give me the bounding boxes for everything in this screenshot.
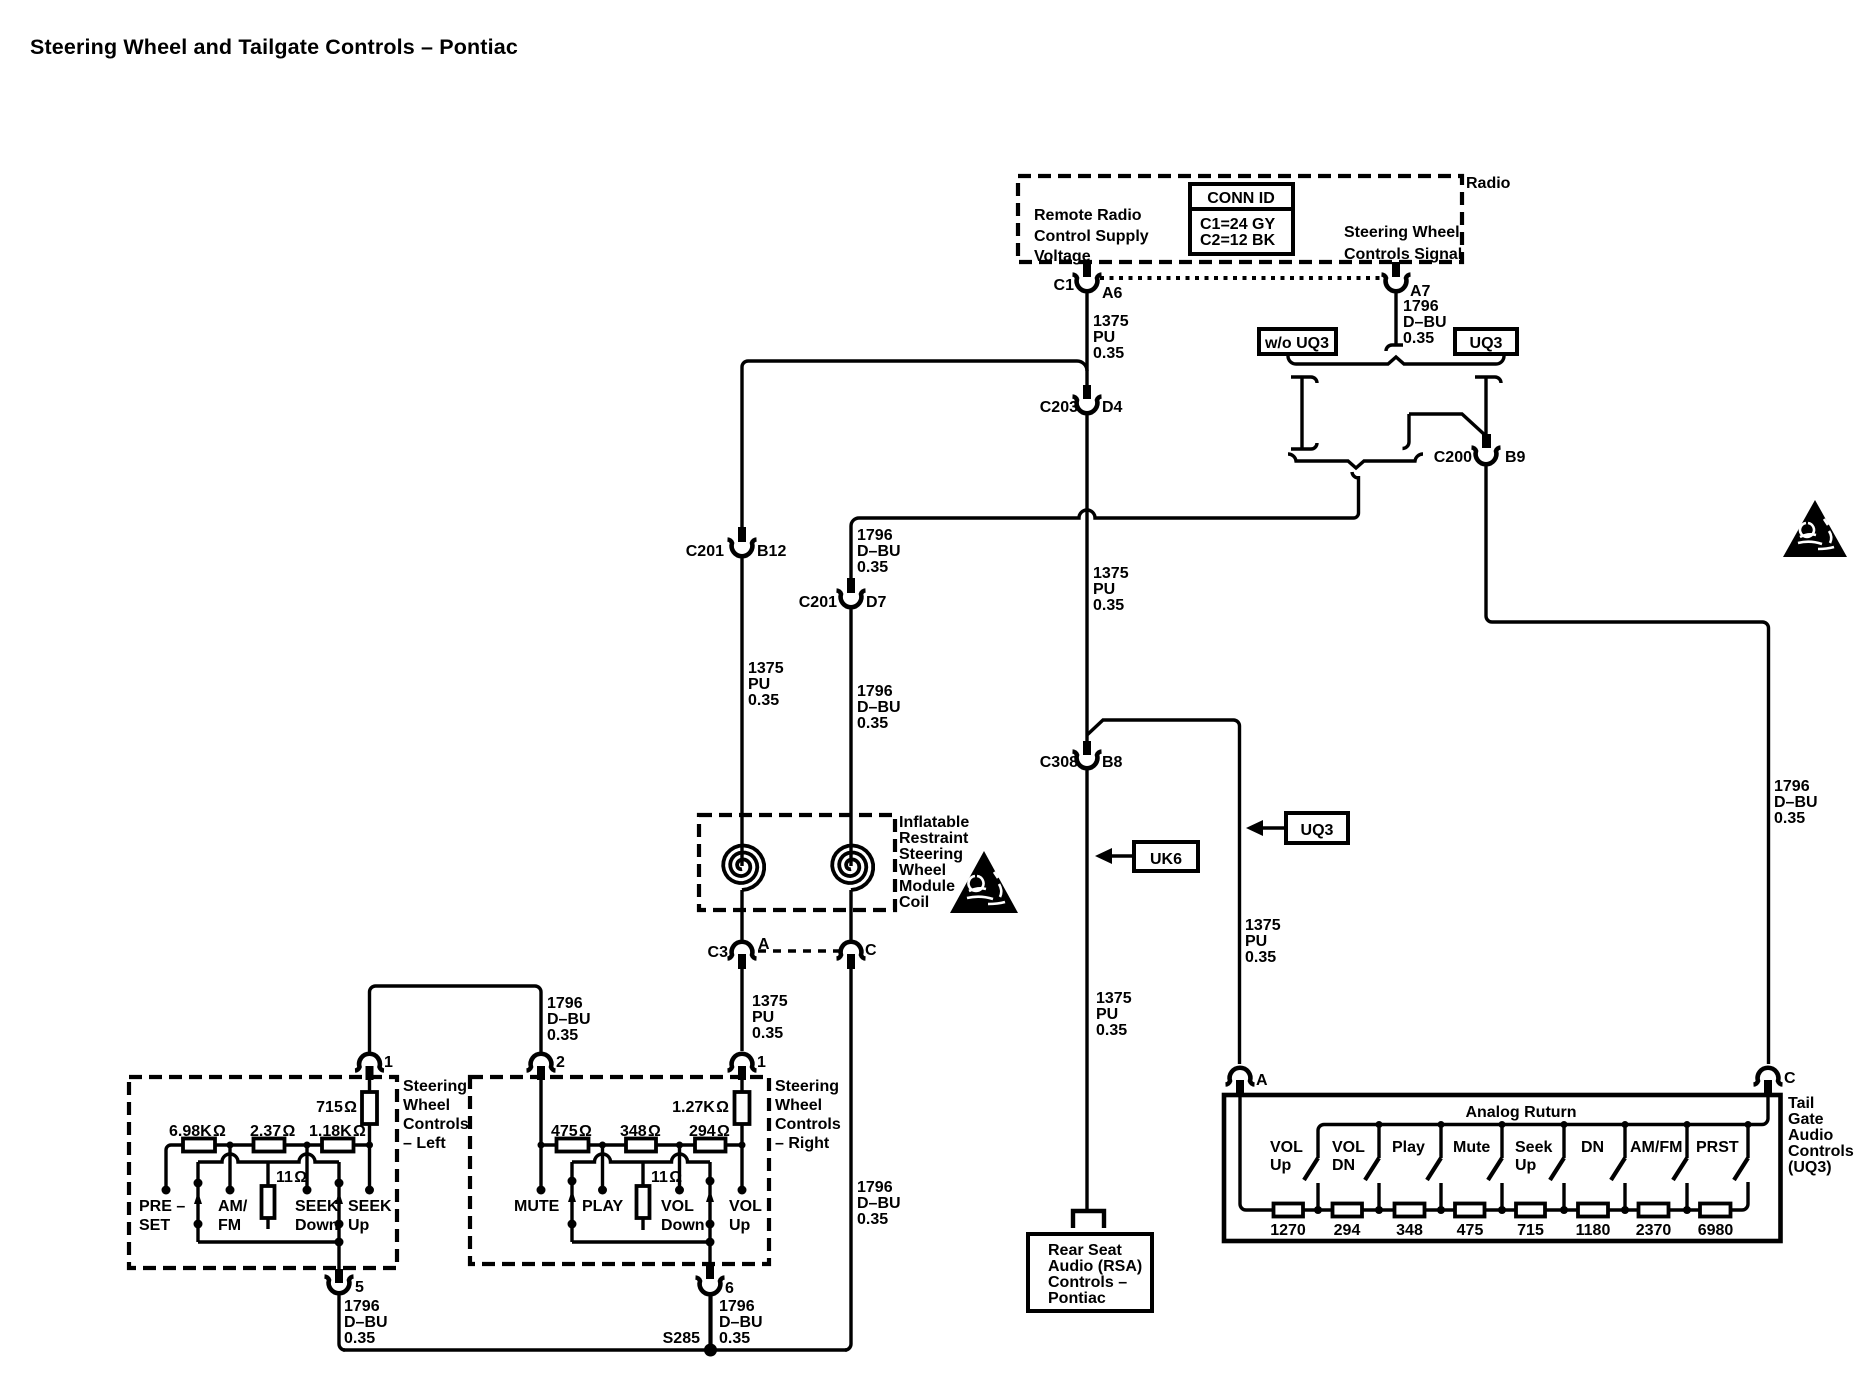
svg-text:Wheel: Wheel [775, 1097, 822, 1114]
svg-text:294 Ω: 294 Ω [689, 1123, 730, 1140]
left box return loop bottom wire [198, 1240, 339, 1243]
svg-text:VOL: VOL [1332, 1139, 1365, 1156]
svg-text:PU: PU [752, 1009, 774, 1026]
svg-text:11 Ω: 11 Ω [276, 1169, 307, 1186]
resistor 11 ohm [637, 1186, 650, 1218]
wire SEEK Up tap [368, 1145, 371, 1189]
svg-text:1375: 1375 [1096, 990, 1132, 1007]
connector C203 pin D4 stub [1083, 385, 1091, 399]
right box return loop left wire [570, 1162, 573, 1242]
svg-text:475: 475 [1457, 1222, 1484, 1239]
left loop contact dots [194, 1179, 203, 1188]
svg-text:UQ3: UQ3 [1301, 822, 1334, 839]
UQ3 branch top terminal [1475, 377, 1501, 383]
wire A7 down to option split [1394, 292, 1397, 345]
label Inflatable Restraint Steering Wheel Module Coil [899, 814, 969, 911]
connector C3 pin A stub [738, 954, 746, 969]
wire D7 to coil [849, 609, 852, 858]
svg-text:0.35: 0.35 [344, 1330, 375, 1347]
resistor 475 ohm [557, 1139, 589, 1152]
wire label 1796 D-BU 0.35 (right side) [1774, 778, 1818, 827]
svg-text:1.18K Ω: 1.18K Ω [309, 1123, 366, 1140]
option split upper brace [1288, 356, 1504, 364]
Rear Seat Audio (RSA) Controls - Pontiac box [1028, 1234, 1152, 1311]
svg-text:PRST: PRST [1696, 1139, 1739, 1156]
svg-text:Radio: Radio [1466, 175, 1511, 192]
svg-text:Controls: Controls [403, 1116, 469, 1133]
svg-text:1796: 1796 [1403, 298, 1439, 315]
svg-text:D–BU: D–BU [344, 1314, 388, 1331]
resistor 1180 [1578, 1204, 1608, 1217]
svg-text:0.35: 0.35 [1093, 597, 1124, 614]
connector C201 pin B12 stub [738, 527, 746, 542]
VOL Down contact dot [675, 1186, 684, 1195]
svg-text:DN: DN [1581, 1139, 1604, 1156]
svg-text:UK6: UK6 [1150, 851, 1182, 868]
svg-text:6980: 6980 [1698, 1222, 1734, 1239]
svg-text:Audio: Audio [1788, 1127, 1834, 1144]
wire B12 to coil [740, 558, 743, 858]
left loop arrow [194, 1192, 202, 1204]
svg-text:D–BU: D–BU [1774, 794, 1818, 811]
airbag warning triangle (right) [1783, 500, 1847, 557]
switch PRST [1734, 1121, 1752, 1180]
svg-text:C: C [1784, 1070, 1796, 1087]
svg-text:D–BU: D–BU [719, 1314, 763, 1331]
UQ3 branch wire [1484, 377, 1487, 434]
left box resistor bus wire [166, 1145, 370, 1189]
wire label 1796 D-BU 0.35 (below pin 6) [719, 1298, 763, 1347]
connector pin 1 stub [738, 1066, 746, 1080]
connector C1 pin A6 stub [1083, 262, 1091, 277]
svg-text:0.35: 0.35 [748, 692, 779, 709]
svg-text:Audio (RSA): Audio (RSA) [1048, 1258, 1142, 1275]
label Seek Up [1515, 1139, 1552, 1174]
svg-text:1796: 1796 [857, 1179, 893, 1196]
svg-text:1.27K Ω: 1.27K Ω [672, 1099, 729, 1116]
wire A6 to C203 [1085, 292, 1088, 385]
connector pin 5 [325, 1277, 354, 1294]
svg-text:FM: FM [218, 1217, 241, 1234]
svg-text:Restraint: Restraint [899, 830, 969, 847]
svg-text:A6: A6 [1102, 285, 1123, 302]
svg-text:B12: B12 [757, 543, 786, 560]
Radio module dashed box [1018, 176, 1462, 262]
svg-text:C: C [865, 942, 877, 959]
connector C200 pin B9 stub [1482, 434, 1491, 448]
loop contact dots [706, 1177, 715, 1186]
svg-text:0.35: 0.35 [1093, 345, 1124, 362]
connector C3 pin C [837, 942, 866, 959]
connector C201 pin D7 [837, 591, 866, 608]
svg-text:Remote Radio: Remote Radio [1034, 207, 1142, 224]
resistor 294 ohm [695, 1139, 726, 1152]
analog return bus wire [1318, 1094, 1768, 1158]
label VOL DN [1332, 1139, 1365, 1174]
svg-text:D–BU: D–BU [1403, 314, 1447, 331]
svg-text:Coil: Coil [899, 894, 929, 911]
wire label 1796 D-BU 0.35 (daisy chain) [547, 995, 591, 1044]
S285 bus wire [343, 1348, 847, 1352]
svg-text:Analog Ruturn: Analog Ruturn [1465, 1104, 1576, 1121]
switch Mute [1488, 1121, 1506, 1214]
wire branch to tail gate A [1087, 720, 1240, 1064]
svg-text:2: 2 [556, 1054, 565, 1071]
svg-text:Steering: Steering [899, 846, 963, 863]
svg-text:0.35: 0.35 [1774, 810, 1805, 827]
svg-text:Inflatable: Inflatable [899, 814, 969, 831]
svg-text:SEEK: SEEK [295, 1198, 339, 1215]
svg-text:Steering: Steering [775, 1078, 839, 1095]
junction bus/VOL Down [676, 1142, 683, 1149]
svg-text:715 Ω: 715 Ω [316, 1099, 357, 1116]
svg-text:Tail: Tail [1788, 1095, 1814, 1112]
connector pin 2 stub [537, 1066, 545, 1080]
label VOL Up [729, 1198, 762, 1234]
switch Seek Up [1550, 1121, 1568, 1214]
VOL Up contact dot [738, 1186, 747, 1195]
svg-text:6.98K Ω: 6.98K Ω [169, 1123, 226, 1140]
svg-text:C3: C3 [708, 944, 729, 961]
svg-text:C308: C308 [1040, 754, 1078, 771]
svg-text:Controls –: Controls – [1048, 1274, 1127, 1291]
connector C1 pin A6 [1073, 275, 1102, 292]
resistor 1.27K ohm [735, 1092, 750, 1124]
label SEEK Up [348, 1198, 392, 1234]
splice S285 [704, 1344, 717, 1357]
svg-text:0.35: 0.35 [857, 1211, 888, 1228]
wire PLAY tap [601, 1145, 604, 1189]
wire pin 1 to resistor 715 [368, 1080, 371, 1092]
wire lower brace to C201 D7 [851, 476, 1359, 578]
svg-text:Voltage: Voltage [1034, 248, 1091, 265]
svg-text:1270: 1270 [1270, 1222, 1306, 1239]
svg-text:1796: 1796 [857, 527, 893, 544]
option arrow UQ3 [1246, 813, 1348, 843]
option arrow UK6 [1095, 842, 1198, 871]
loop arrow [706, 1190, 714, 1202]
resistor 6.98K ohm [183, 1139, 215, 1152]
resistor 2.37 ohm [254, 1139, 285, 1152]
svg-text:Steering: Steering [403, 1078, 467, 1095]
AM/FM contact dot [226, 1186, 235, 1195]
connector pin 1 stub [366, 1066, 374, 1080]
UQ3 jumper elbow wire [1409, 414, 1486, 436]
svg-text:B8: B8 [1102, 754, 1123, 771]
svg-text:PU: PU [1093, 329, 1115, 346]
connector C201 pin B12 [728, 540, 757, 557]
svg-text:11 Ω: 11 Ω [651, 1169, 682, 1186]
switch VOL Up [1304, 1158, 1322, 1214]
svg-text:Steering Wheel and Tailgate Co: Steering Wheel and Tailgate Controls – P… [30, 35, 518, 59]
svg-text:1796: 1796 [547, 995, 583, 1012]
svg-text:348: 348 [1396, 1222, 1423, 1239]
label Steering Wheel Controls Signal [1344, 224, 1462, 263]
wire label 1796 D-BU 0.35 (below C3 C) [857, 1179, 901, 1228]
junction bus/MUTE [538, 1142, 545, 1149]
wire label 1796 D-BU 0.35 (above D7) [857, 527, 901, 576]
connector pin 2 (right box) [527, 1054, 556, 1071]
svg-text:PRE –: PRE – [139, 1198, 185, 1215]
connector C308 pin B8 [1073, 752, 1102, 769]
svg-text:C2=12 BK: C2=12 BK [1200, 232, 1276, 249]
connector pin C stub [1764, 1080, 1772, 1096]
svg-text:Steering Wheel: Steering Wheel [1344, 224, 1460, 241]
svg-text:1796: 1796 [1774, 778, 1810, 795]
svg-text:0.35: 0.35 [1096, 1022, 1127, 1039]
junction bus/AM-FM [227, 1142, 234, 1149]
switch Play [1427, 1121, 1445, 1214]
svg-text:C1=24 GY: C1=24 GY [1200, 216, 1275, 233]
wire end marker at option split [1386, 345, 1403, 351]
svg-text:0.35: 0.35 [1403, 330, 1434, 347]
svg-text:0.35: 0.35 [1245, 949, 1276, 966]
svg-text:1180: 1180 [1576, 1222, 1611, 1239]
resistor 715 [1516, 1204, 1545, 1217]
connector pin A stub [1236, 1080, 1244, 1096]
option box UQ3 [1455, 329, 1517, 354]
svg-text:2370: 2370 [1636, 1222, 1672, 1239]
wire resistor 1.27K to bus [740, 1124, 743, 1145]
wire 11 ohm tap [641, 1162, 644, 1186]
svg-text:0.35: 0.35 [857, 715, 888, 732]
svg-text:1796: 1796 [719, 1298, 755, 1315]
connector pin A [1226, 1068, 1255, 1085]
wire B8 to RSA [1085, 770, 1088, 1211]
switch AM/FM [1673, 1121, 1691, 1214]
label VOL Down [661, 1198, 705, 1234]
wire pin 6 to S285 [708, 1295, 712, 1350]
svg-text:1375: 1375 [748, 660, 784, 677]
junction bus/1.27K [739, 1142, 746, 1149]
svg-text:Mute: Mute [1453, 1139, 1490, 1156]
wire pin 5 to S285 bus [339, 1294, 345, 1350]
junction return/pin5 [335, 1238, 344, 1247]
svg-text:294: 294 [1334, 1222, 1361, 1239]
resistor 11 ohm [262, 1186, 275, 1218]
wire label 1375 PU 0.35 (tail gate branch) [1245, 917, 1281, 966]
svg-text:2.37 Ω: 2.37 Ω [250, 1123, 295, 1140]
svg-text:Controls: Controls [775, 1116, 841, 1133]
wire label 1375 PU 0.35 (below B12) [748, 660, 784, 709]
resistor 1270 [1274, 1204, 1304, 1217]
connector C1 pin A7 [1382, 275, 1411, 292]
Tail Gate Audio Controls box [1224, 1095, 1781, 1241]
junction return/pin6 [706, 1238, 715, 1247]
svg-text:VOL: VOL [729, 1198, 762, 1215]
switch DN [1611, 1121, 1629, 1214]
svg-text:1375: 1375 [1245, 917, 1281, 934]
w/o UQ3 branch wire [1300, 377, 1303, 449]
right box return loop right wire [708, 1162, 711, 1242]
svg-text:Control Supply: Control Supply [1034, 228, 1149, 245]
PLAY contact dot [598, 1186, 607, 1195]
wire start marker below lower brace [1352, 472, 1359, 478]
connector pin 1 (right box) [728, 1054, 757, 1071]
svg-text:Module: Module [899, 878, 955, 895]
loop contact dots [568, 1177, 577, 1186]
label PRE-SET [139, 1198, 185, 1234]
svg-text:0.35: 0.35 [719, 1330, 750, 1347]
svg-text:Up: Up [1270, 1157, 1292, 1174]
svg-text:Pontiac: Pontiac [1048, 1290, 1106, 1307]
label SEEK Down [295, 1198, 339, 1234]
svg-text:Up: Up [729, 1217, 751, 1234]
svg-text:D7: D7 [866, 594, 887, 611]
wire label 1375 PU 0.35 (below A6) [1093, 313, 1129, 362]
svg-text:Seek: Seek [1515, 1139, 1552, 1156]
label Tail Gate Audio Controls (UQ3) [1788, 1095, 1854, 1176]
left box return loop top wire [198, 1154, 339, 1162]
label Steering Wheel Controls - Left [403, 1078, 469, 1152]
wire label 1796 D-BU 0.35 (below D7) [857, 683, 901, 732]
svg-text:1375: 1375 [1093, 313, 1129, 330]
w/o UQ3 branch bottom terminal [1291, 443, 1317, 449]
svg-text:PU: PU [1245, 933, 1267, 950]
connector pin 6 stub [706, 1265, 714, 1279]
wire SEEK Down tap [305, 1145, 308, 1189]
connector C308 pin B8 stub [1083, 741, 1091, 755]
right loop contact dots [335, 1179, 344, 1188]
svg-text:Down: Down [661, 1217, 705, 1234]
connector C201 pin D7 stub [847, 578, 855, 593]
label Remote Radio Control Supply Voltage [1034, 207, 1149, 265]
connector C200 pin B9 [1472, 448, 1501, 465]
svg-text:UQ3: UQ3 [1470, 335, 1503, 352]
svg-text:CONN ID: CONN ID [1207, 190, 1275, 207]
junction bus/SEEK Down [304, 1142, 311, 1149]
svg-text:Up: Up [1515, 1157, 1537, 1174]
svg-text:AM/FM: AM/FM [1630, 1139, 1682, 1156]
Inflatable Restraint Steering Wheel Module Coil dashed box [699, 815, 895, 910]
wire left box pin 1 to right box pin 2 [370, 986, 542, 1052]
svg-text:D–BU: D–BU [857, 1195, 901, 1212]
wire loop to pin 5 [337, 1242, 340, 1269]
right box return loop bottom wire [572, 1240, 710, 1243]
Steering Wheel Controls - Right dashed box [470, 1077, 769, 1264]
airbag warning triangle (coil) [950, 851, 1018, 913]
svg-text:1796: 1796 [857, 683, 893, 700]
wire through right coil [849, 858, 852, 866]
svg-text:PLAY: PLAY [582, 1198, 624, 1215]
svg-text:S285: S285 [663, 1330, 700, 1347]
connector pin 5 stub [335, 1269, 343, 1283]
svg-text:Play: Play [1392, 1139, 1425, 1156]
label VOL Up [1270, 1139, 1303, 1174]
svg-text:SEEK: SEEK [348, 1198, 392, 1215]
svg-text:DN: DN [1332, 1157, 1355, 1174]
svg-text:w/o UQ3: w/o UQ3 [1264, 335, 1329, 352]
svg-text:Controls Signal: Controls Signal [1344, 246, 1462, 263]
resistor 475 [1455, 1204, 1485, 1217]
svg-text:348 Ω: 348 Ω [620, 1123, 661, 1140]
svg-text:D–BU: D–BU [547, 1011, 591, 1028]
coil spiral (left) [723, 846, 764, 891]
wire label 1375 PU 0.35 (below B8) [1096, 990, 1132, 1039]
switch VOL DN [1365, 1121, 1383, 1214]
svg-text:MUTE: MUTE [514, 1198, 560, 1215]
svg-text:1796: 1796 [344, 1298, 380, 1315]
resistor 1.18K ohm [322, 1139, 354, 1152]
connector C3 pin A [728, 942, 757, 959]
wire label 1796 D-BU 0.35 (below pin 5) [344, 1298, 388, 1347]
svg-text:6: 6 [725, 1280, 734, 1297]
svg-text:5: 5 [355, 1279, 364, 1296]
connector pin 6 [696, 1278, 725, 1295]
resistor 715 ohm [362, 1092, 377, 1124]
resistor 6980 [1700, 1204, 1731, 1217]
junction bus/PLAY [599, 1142, 606, 1149]
svg-text:C201: C201 [686, 543, 724, 560]
svg-text:SET: SET [139, 1217, 170, 1234]
svg-text:475 Ω: 475 Ω [551, 1123, 592, 1140]
label Rear Seat Audio (RSA) Controls - Pontiac [1048, 1242, 1142, 1307]
svg-text:1375: 1375 [752, 993, 788, 1010]
svg-text:PU: PU [1093, 581, 1115, 598]
svg-text:Controls: Controls [1788, 1143, 1854, 1160]
svg-text:Rear Seat: Rear Seat [1048, 1242, 1122, 1259]
connector C3 boundary dashed line [758, 949, 842, 953]
svg-text:Up: Up [348, 1217, 370, 1234]
label AM/FM [218, 1198, 248, 1234]
right box resistor bus wire [541, 1143, 742, 1146]
svg-text:Wheel: Wheel [403, 1097, 450, 1114]
Steering Wheel Controls - Left dashed box [129, 1077, 397, 1268]
wire pin A to resistor ladder [1240, 1094, 1748, 1210]
svg-text:C203: C203 [1040, 399, 1078, 416]
resistor 294 [1333, 1204, 1363, 1217]
MUTE contact dot [537, 1186, 546, 1195]
left box return loop left wire [196, 1162, 199, 1242]
left box return loop right wire [337, 1162, 340, 1242]
connector C203 pin D4 [1073, 397, 1102, 414]
wire C3 A to right box pin 1 [740, 969, 743, 1051]
SEEK Up contact dot [365, 1186, 374, 1195]
UQ3 jumper end wire [1403, 414, 1410, 449]
resistor 2370 [1639, 1204, 1669, 1217]
svg-text:Wheel: Wheel [899, 862, 946, 879]
wire label 1375 PU 0.35 (below C3 A) [752, 993, 788, 1042]
wire through left coil [740, 858, 743, 866]
resistor 348 [1395, 1204, 1425, 1217]
wire label 1796 D-BU 0.35 (below A7) [1403, 298, 1447, 347]
junction bus/715 [366, 1142, 373, 1149]
wire C3 C to S285 [845, 969, 851, 1350]
wire 11 ohm tap [266, 1162, 269, 1186]
wire branch to C201 B12 [742, 361, 1087, 527]
wire left coil to C3 A [740, 890, 743, 941]
wire pin 1 to resistor 1.27K [740, 1080, 743, 1092]
label Steering Wheel Controls - Right [775, 1078, 841, 1152]
svg-text:0.35: 0.35 [752, 1025, 783, 1042]
connector pin 1 (left box) [355, 1054, 384, 1071]
right loop arrow [335, 1192, 343, 1204]
svg-text:VOL: VOL [1270, 1139, 1303, 1156]
svg-text:0.35: 0.35 [547, 1027, 578, 1044]
svg-text:– Right: – Right [775, 1135, 830, 1152]
svg-text:VOL: VOL [661, 1198, 694, 1215]
option box w/o UQ3 [1259, 329, 1336, 354]
connector C3 pin C stub [847, 954, 855, 969]
terminal into RSA module [1073, 1211, 1104, 1228]
svg-text:A: A [1256, 1072, 1268, 1089]
PRE-SET contact dot [162, 1186, 171, 1195]
wire 11 ohm tail [266, 1218, 269, 1229]
wire VOL Up tap [740, 1145, 743, 1189]
svg-text:Gate: Gate [1788, 1111, 1824, 1128]
wire MUTE column [539, 1080, 542, 1189]
svg-text:D–BU: D–BU [857, 699, 901, 716]
